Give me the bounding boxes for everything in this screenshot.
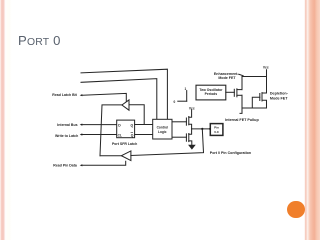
switch contact 1	[186, 91, 188, 102]
svg-text:Read Pin Data: Read Pin Data	[53, 164, 77, 168]
wire dep FET gate-source loop	[252, 97, 259, 108]
latch box Port SFR Latch	[117, 120, 135, 138]
orange circle decoration	[287, 201, 305, 219]
wire pullup output node	[242, 107, 267, 109]
svg-text:Periods: Periods	[205, 92, 218, 96]
svg-text:0.X: 0.X	[214, 130, 219, 134]
transistor Q3 enhancement pullup FET	[233, 89, 235, 96]
wire Q to control logic	[135, 124, 153, 126]
wire read pin data enable	[83, 161, 126, 165]
right border stripes	[296, 0, 320, 240]
left border stripe	[0, 0, 13, 240]
svg-text:CL: CL	[118, 134, 122, 138]
control logic box	[153, 119, 172, 139]
buffer read pin (tri-state)	[121, 151, 130, 161]
buffer read latch (tri-state)	[122, 100, 129, 110]
svg-text:Read Latch Bit: Read Latch Bit	[52, 93, 77, 97]
svg-text:Internal FET Pullup: Internal FET Pullup	[225, 118, 259, 122]
one-shot box Two Oscillator Periods	[196, 85, 226, 100]
wire Qbar to control logic	[135, 134, 153, 136]
switch contact 0 wire	[178, 100, 187, 102]
svg-text:1: 1	[185, 87, 187, 91]
transistor Q1 upper output FET	[185, 118, 187, 125]
wire buffer2 output to internal bus	[100, 155, 121, 157]
svg-text:Internal Bus: Internal Bus	[57, 123, 77, 127]
svg-text:Port SFR Latch: Port SFR Latch	[112, 142, 137, 146]
svg-text:Control: Control	[157, 125, 168, 129]
svg-text:Mode FET: Mode FET	[270, 96, 288, 100]
wire Vcc rail pullup	[242, 70, 267, 90]
slide title PORT 0	[18, 33, 61, 48]
wire buffer2 input from pin	[131, 129, 204, 156]
callout dash enhancement label	[239, 74, 243, 76]
junction node at pin	[201, 128, 203, 130]
svg-text:Q: Q	[131, 134, 134, 138]
svg-text:Port 0 Pin Configuration: Port 0 Pin Configuration	[210, 151, 251, 155]
svg-text:Depletion-: Depletion-	[270, 92, 289, 96]
ground symbol	[189, 145, 195, 149]
transistor Q2 lower output FET	[185, 134, 187, 141]
wire rail to dep FET drain	[266, 77, 268, 94]
svg-text:Q: Q	[131, 123, 134, 127]
pin box Pin 0.X	[210, 124, 223, 136]
svg-text:Write to Latch: Write to Latch	[55, 134, 78, 138]
wire enh FET source drop	[240, 95, 242, 113]
wire control to upper FET gate	[172, 121, 186, 123]
svg-text:Logic: Logic	[158, 130, 167, 134]
wire internal bus to D	[83, 124, 117, 126]
transistor Q4 depletion pullup FET	[259, 94, 261, 101]
arrowheads on label wires	[80, 94, 83, 96]
wire bus line D-top	[81, 69, 167, 119]
svg-text:Mode FET: Mode FET	[218, 76, 236, 80]
svg-text:Vcc: Vcc	[189, 107, 195, 111]
wire write to latch to CL	[83, 134, 117, 136]
svg-text:0: 0	[174, 100, 176, 104]
wire pin node	[192, 128, 211, 130]
wire read latch bit enable	[83, 93, 127, 101]
wire buffer1 output to internal bus	[100, 105, 122, 156]
junction node at pin box	[209, 128, 211, 130]
wire buffer1 input from Q	[129, 105, 144, 125]
wire one-shot to enh FET gate	[226, 91, 235, 93]
svg-text:Vcc: Vcc	[263, 66, 269, 70]
wire control to lower FET gate	[172, 136, 186, 138]
wire bus line D-bottom	[81, 79, 157, 120]
